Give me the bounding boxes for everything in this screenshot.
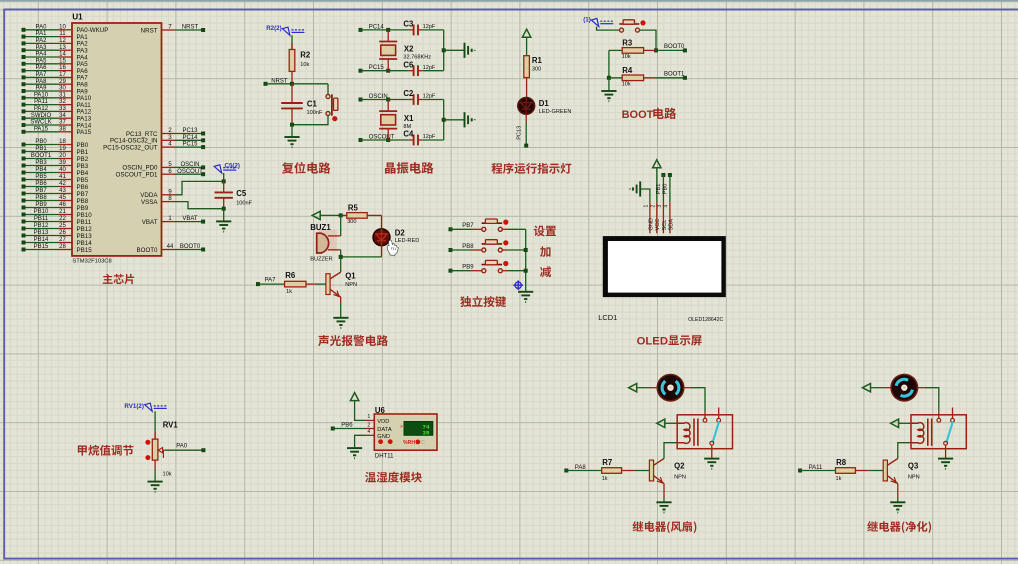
node PA0 <box>201 448 205 452</box>
resistor R3 <box>609 49 622 51</box>
svg-text:12pF: 12pF <box>423 94 436 100</box>
wire net SWCLK to U1 pin 37 <box>24 124 59 126</box>
resistor R8 <box>836 468 856 474</box>
wire right bus <box>443 30 445 71</box>
svg-text:PA0: PA0 <box>36 24 48 30</box>
svg-text:R3: R3 <box>622 39 633 48</box>
svg-text:PB9: PB9 <box>35 202 47 208</box>
svg-text:PB2: PB2 <box>77 156 89 163</box>
diode D1 LED-GREEN <box>518 98 535 115</box>
svg-text:100nF: 100nF <box>236 200 252 206</box>
svg-text:OSCOUT: OSCOUT <box>177 169 203 175</box>
svg-text:45: 45 <box>59 195 66 201</box>
svg-text:1: 1 <box>368 414 371 420</box>
node R5 left <box>339 213 343 217</box>
wire D2 to bottom rail <box>381 246 383 257</box>
svg-text:PB0: PB0 <box>663 184 669 195</box>
resistor R6 <box>285 281 306 287</box>
svg-text:PB7: PB7 <box>462 223 474 229</box>
wire NRST horizontal <box>266 83 293 85</box>
svg-text:PA1: PA1 <box>36 31 48 37</box>
svg-text:NPN: NPN <box>345 282 357 288</box>
wire buzzer bottom to rail node <box>340 250 342 257</box>
potentiometer RV1 <box>152 439 158 460</box>
caption run indicator <box>491 163 571 174</box>
svg-text:SCL: SCL <box>662 220 668 231</box>
wire R4 to ground <box>608 78 610 91</box>
svg-text:NPN: NPN <box>674 474 686 480</box>
wire SDA <box>669 175 671 202</box>
svg-text:PB1: PB1 <box>77 149 89 156</box>
svg-text:PB10: PB10 <box>77 212 93 219</box>
svg-text:PA3: PA3 <box>36 45 48 51</box>
wire button PB9 to bus <box>502 270 507 272</box>
node PC13 end <box>524 144 528 148</box>
wire net PA15 to U1 pin 38 <box>24 131 59 133</box>
svg-text:PC15-OSC32_OUT: PC15-OSC32_OUT <box>103 144 158 151</box>
node PC14 <box>359 28 363 32</box>
relay body <box>677 415 732 449</box>
svg-text:32: 32 <box>59 99 66 105</box>
relay common contact <box>937 418 941 422</box>
svg-text:Q1: Q1 <box>345 271 356 280</box>
wire OSCIN to cap <box>361 99 389 101</box>
svg-text:37: 37 <box>59 120 66 126</box>
svg-text:17: 17 <box>59 72 66 78</box>
caption plus <box>540 246 550 257</box>
svg-text:BUZ1: BUZ1 <box>310 223 331 232</box>
svg-text:PB0: PB0 <box>77 142 89 149</box>
svg-text:PA5: PA5 <box>36 58 48 64</box>
wire Q2 emitter to ground <box>663 484 665 498</box>
svg-text:25: 25 <box>59 223 66 229</box>
wire net PA1 to U1 pin 11 <box>24 36 59 38</box>
wire net PB13 to U1 pin 26 <box>24 235 59 237</box>
power arrow alarm <box>312 211 320 219</box>
svg-text:C5(2): C5(2) <box>225 163 240 170</box>
svg-text:LED-GREEN: LED-GREEN <box>539 109 572 115</box>
svg-text:32.768KHz: 32.768KHz <box>403 55 431 61</box>
wire net PA11 to U1 pin 32 <box>24 104 59 106</box>
svg-text:C5: C5 <box>236 189 247 198</box>
U6 LCD readout <box>404 422 433 436</box>
caption relay <box>633 521 697 533</box>
wire R1 to D1 <box>526 78 528 98</box>
svg-text:PA12: PA12 <box>34 106 49 112</box>
svg-text:11: 11 <box>59 31 66 37</box>
svg-text:X1: X1 <box>404 114 414 123</box>
node PA11 <box>798 469 802 473</box>
svg-text:PA2: PA2 <box>36 38 48 44</box>
ground Q2 emitter <box>656 502 671 512</box>
node C1 bottom <box>290 123 294 127</box>
chip U1 STM32F103C8 <box>72 23 162 256</box>
svg-text:10k: 10k <box>163 472 172 478</box>
ground RV1 <box>148 482 163 492</box>
relay core <box>693 419 695 446</box>
motor power arrow <box>629 384 637 392</box>
wire net OSCOUT from U1 pin 6 <box>162 173 176 175</box>
svg-text:10k: 10k <box>300 62 309 68</box>
svg-text:PB9: PB9 <box>462 265 474 271</box>
relay NO stub <box>952 408 954 419</box>
svg-text:35: 35 <box>423 429 430 436</box>
svg-text:GND: GND <box>377 434 390 440</box>
wire net PB12 to U1 pin 25 <box>24 228 59 230</box>
wire relay bottom contact to ground <box>711 445 713 459</box>
push button PB7 <box>482 227 503 231</box>
relay bottom contact <box>944 441 948 445</box>
wire net VBAT from U1 pin 1 <box>162 221 176 223</box>
svg-text:PB6: PB6 <box>77 184 89 191</box>
wire PA8 to R7 <box>566 470 601 472</box>
svg-text:4: 4 <box>664 205 670 208</box>
svg-text:27: 27 <box>59 237 66 243</box>
caption set <box>534 226 556 237</box>
power arrow DHT11 <box>350 393 358 401</box>
wire net PB8 to U1 pin 45 <box>24 200 59 202</box>
svg-text:R2(2): R2(2) <box>266 25 281 32</box>
relay coil power arrow <box>891 419 899 427</box>
svg-text:300: 300 <box>532 67 541 73</box>
wire PB9 to button <box>451 270 472 272</box>
wire relay bottom contact to ground <box>945 445 947 459</box>
svg-text:29: 29 <box>59 79 66 85</box>
svg-text:PA11: PA11 <box>34 99 48 105</box>
capacitor C1 <box>291 84 293 103</box>
wire button to R3 <box>640 30 656 50</box>
svg-text:VBAT: VBAT <box>182 216 198 222</box>
svg-text:R1: R1 <box>532 56 543 65</box>
svg-text:41: 41 <box>59 174 66 180</box>
wire button to bottom rail <box>292 116 328 125</box>
U6 indicator dots <box>378 439 383 444</box>
capacitor C6 <box>414 65 418 76</box>
svg-text:PB5: PB5 <box>35 174 47 180</box>
wire right bus <box>443 100 445 141</box>
push button BOOT <box>620 28 640 32</box>
ground relay contact <box>938 459 953 469</box>
crystal X1 <box>387 100 389 112</box>
wire net PB5 to U1 pin 41 <box>24 179 59 181</box>
svg-text:BOOT0: BOOT0 <box>180 244 201 250</box>
node NRST <box>264 82 268 86</box>
wire Q3 collector to relay coil <box>898 443 911 459</box>
node junction VDDA/C5 <box>222 179 226 183</box>
wire C5 to ground <box>223 209 225 222</box>
wire net PB11 to U1 pin 22 <box>24 221 59 223</box>
svg-text:PB4: PB4 <box>35 167 47 173</box>
wire net PB1 to U1 pin 19 <box>24 151 59 153</box>
svg-text:PB8: PB8 <box>462 244 474 250</box>
node junction VSSA/C5 <box>222 207 226 211</box>
svg-text:40: 40 <box>59 167 66 173</box>
wire OSCOUT to cap <box>361 139 389 141</box>
svg-text:15: 15 <box>59 58 66 64</box>
node OSCIN <box>359 98 363 102</box>
svg-text:PB12: PB12 <box>34 223 49 229</box>
svg-text:BOOT: BOOT <box>622 109 654 121</box>
svg-text:U6: U6 <box>375 406 386 415</box>
wire button bus <box>525 229 527 291</box>
svg-text:30: 30 <box>59 86 66 92</box>
capacitor C5 <box>223 181 225 192</box>
ground BOOT circuit <box>601 91 616 101</box>
wire net PA5 to U1 pin 15 <box>24 63 59 65</box>
svg-text:44: 44 <box>167 244 174 250</box>
svg-text:R2: R2 <box>300 50 311 59</box>
wire BOOT0 net <box>656 49 685 51</box>
wire net PC14 from U1 pin 3 <box>162 139 176 141</box>
wire net PB14 to U1 pin 27 <box>24 242 59 244</box>
push button PB9 <box>482 269 503 273</box>
node OSCOUT <box>359 138 363 142</box>
node R3 right <box>654 48 658 52</box>
wire net PA8 to U1 pin 29 <box>24 83 59 85</box>
svg-text:R7: R7 <box>602 458 612 467</box>
buzzer bottom pin <box>328 249 341 251</box>
wire probe to button <box>597 27 620 31</box>
svg-text:12pF: 12pF <box>423 134 436 140</box>
capacitor C3 <box>414 25 418 36</box>
LCD1 pin 1 GND <box>649 202 651 233</box>
ground Q3 emitter <box>890 502 905 512</box>
svg-text:2: 2 <box>368 422 371 428</box>
svg-text:PB14: PB14 <box>77 240 93 247</box>
svg-text:PB1: PB1 <box>35 146 47 152</box>
svg-text:42: 42 <box>59 181 66 187</box>
svg-text:19: 19 <box>59 146 66 152</box>
wire power to R5 node <box>320 214 341 216</box>
relay NO stub <box>718 408 720 419</box>
wire net PA6 to U1 pin 16 <box>24 70 59 72</box>
display LCD1 OLED <box>603 236 726 297</box>
svg-text:PB11: PB11 <box>77 219 92 226</box>
svg-text:PB14: PB14 <box>34 237 49 243</box>
svg-text:PA8: PA8 <box>36 79 48 85</box>
wire PA7 to R6 <box>258 283 285 285</box>
svg-text:RV1: RV1 <box>163 420 179 429</box>
svg-text:28: 28 <box>59 244 66 250</box>
svg-text:BOOT0: BOOT0 <box>664 44 685 50</box>
svg-text:VDD: VDD <box>377 419 389 425</box>
relay bottom contact <box>710 441 714 445</box>
svg-text:16: 16 <box>59 65 66 71</box>
svg-text:C6: C6 <box>403 60 414 69</box>
svg-text:12pF: 12pF <box>423 65 436 71</box>
svg-text:31: 31 <box>59 92 66 98</box>
svg-text:PA15: PA15 <box>77 129 92 136</box>
svg-text:R5: R5 <box>348 204 359 213</box>
svg-text:39: 39 <box>59 160 66 166</box>
svg-text:PB7: PB7 <box>77 191 89 198</box>
relay NO contact <box>951 418 955 422</box>
wire net PA7 to U1 pin 17 <box>24 76 59 78</box>
wire net PB3 to U1 pin 39 <box>24 165 59 167</box>
wire PC14 to cap <box>361 29 389 31</box>
wire net PB15 to U1 pin 28 <box>24 249 59 251</box>
resistor R5 <box>341 214 347 216</box>
wire RV1 to ground <box>154 460 156 470</box>
wire net OSCIN from U1 pin 5 <box>162 166 176 168</box>
resistor R4 <box>609 77 622 79</box>
node PA7 <box>256 282 260 286</box>
node bus mid <box>442 48 446 52</box>
wire power to R1 <box>526 37 528 56</box>
wire button PB7 to bus <box>502 228 507 230</box>
LCD1 pin 4 SDA <box>669 202 671 233</box>
ground alarm <box>333 318 348 328</box>
wire net BOOT0 from U1 pin 44 <box>162 249 176 251</box>
svg-text:R8: R8 <box>836 458 847 467</box>
voltage probe (1) <box>591 18 613 26</box>
svg-text:NPN: NPN <box>908 474 920 480</box>
ground under C5 <box>216 221 231 231</box>
svg-text:RV1(2): RV1(2) <box>124 403 143 410</box>
svg-text:PB8: PB8 <box>77 198 89 205</box>
wire net PB10 to U1 pin 21 <box>24 214 59 216</box>
svg-text:D1: D1 <box>539 99 550 108</box>
caption methane adjust <box>78 445 134 456</box>
capacitor C2 <box>414 94 418 105</box>
svg-text:BUZZER: BUZZER <box>310 256 332 262</box>
svg-text:1k: 1k <box>602 476 608 482</box>
origin marker <box>513 280 523 290</box>
svg-text:NRST: NRST <box>141 27 158 34</box>
node bus mid <box>442 118 446 122</box>
diode D2 LED-RED <box>373 229 390 246</box>
wire VDD <box>355 401 366 421</box>
svg-text:PB11: PB11 <box>34 216 49 222</box>
svg-text:PA15: PA15 <box>34 126 49 132</box>
push button PB8 <box>482 248 503 252</box>
svg-text:C3: C3 <box>403 20 414 29</box>
buzzer BUZ1 <box>317 233 329 253</box>
svg-text:OSCOUT_PD1: OSCOUT_PD1 <box>116 172 159 179</box>
ground relay contact <box>704 459 719 469</box>
LCD1 pin 2 VCC <box>656 202 658 233</box>
wire net PA9 to U1 pin 30 <box>24 90 59 92</box>
wire net PC13 from U1 pin 2 <box>162 133 176 135</box>
wire net PB7 to U1 pin 43 <box>24 193 59 195</box>
relay body <box>911 415 966 449</box>
svg-text:GND: GND <box>648 218 654 230</box>
wire to ground <box>291 125 293 137</box>
svg-text:PC14: PC14 <box>182 135 198 141</box>
svg-text:DATA: DATA <box>377 427 392 433</box>
power arrow OLED VCC <box>653 160 661 168</box>
svg-text:D2: D2 <box>395 228 406 237</box>
wire net PA12 to U1 pin 33 <box>24 110 59 112</box>
ground crystal <box>465 112 475 127</box>
svg-text:2: 2 <box>650 205 656 208</box>
node PC15 <box>359 69 363 73</box>
wire net PC15 from U1 pin 4 <box>162 146 176 148</box>
wire probe to C5 <box>223 173 225 181</box>
svg-text:100nF: 100nF <box>307 110 323 116</box>
svg-text:18: 18 <box>59 139 66 145</box>
svg-text:BOOT1: BOOT1 <box>664 72 685 78</box>
wire bus to ground <box>444 49 465 51</box>
ground buttons <box>518 292 533 302</box>
node bus PB9 <box>524 269 528 273</box>
svg-text:PB8: PB8 <box>35 195 47 201</box>
svg-text:PB13: PB13 <box>77 233 93 240</box>
wire net PB9 to U1 pin 46 <box>24 207 59 209</box>
U1 pin 8 VSSA wire <box>162 201 176 203</box>
svg-text:10: 10 <box>59 24 66 30</box>
push button reset <box>326 95 330 116</box>
wire net PA3 to U1 pin 13 <box>24 49 59 51</box>
svg-text:PB10: PB10 <box>34 209 49 215</box>
wire R5 node to buzzer top <box>340 215 342 236</box>
wire GND DHT11 <box>366 434 375 436</box>
svg-text:Q2: Q2 <box>674 462 685 471</box>
svg-text:1: 1 <box>644 205 650 208</box>
node PA8 <box>564 469 568 473</box>
svg-text:BOOT1: BOOT1 <box>31 153 52 159</box>
wire PA11 to R8 <box>800 470 835 472</box>
wire net PA4 to U1 pin 14 <box>24 56 59 58</box>
svg-text:PA0: PA0 <box>176 444 188 450</box>
caption main chip <box>103 274 134 284</box>
svg-text:NRST: NRST <box>182 25 199 31</box>
transistor Q3 NPN <box>883 460 887 481</box>
wire D1 to PC13 node <box>525 114 527 122</box>
wire bus to ground <box>444 119 465 121</box>
svg-text:C: C <box>421 440 425 446</box>
node PB8 <box>449 248 453 252</box>
svg-text:PC13: PC13 <box>182 128 198 134</box>
svg-text:R4: R4 <box>622 66 633 75</box>
svg-text:PA4: PA4 <box>36 52 48 58</box>
svg-text:STM32F103C8: STM32F103C8 <box>72 259 111 265</box>
transistor Q2 NPN <box>649 460 653 481</box>
wire C3 to bus <box>418 29 423 31</box>
svg-text:12pF: 12pF <box>423 24 436 30</box>
relay coil power arrow <box>657 419 665 427</box>
node bus PB8 <box>524 248 528 252</box>
svg-text:1k: 1k <box>836 476 842 482</box>
U1 pin 9 VDDA wire <box>162 194 176 196</box>
wire C6 to bus <box>418 70 423 72</box>
svg-text:PB3: PB3 <box>35 160 47 166</box>
LCD1 pin 3 SCL <box>662 202 664 233</box>
node PB7 <box>449 227 453 231</box>
motor fan <box>887 370 922 405</box>
svg-text:38: 38 <box>59 126 66 132</box>
wire net PA2 to U1 pin 12 <box>24 42 59 44</box>
voltage probe C5(2) <box>214 165 236 173</box>
wire rail to Q1 collector <box>340 257 342 272</box>
node PB1 SCL <box>661 173 665 177</box>
wire net PA10 to U1 pin 31 <box>24 97 59 99</box>
svg-text:10k: 10k <box>622 54 631 60</box>
sensor U6 DHT11 body <box>374 414 437 450</box>
buzzer highlight <box>319 230 337 252</box>
capacitor C4 <box>414 135 418 146</box>
svg-text:PB6: PB6 <box>35 181 47 187</box>
relay common contact <box>703 418 707 422</box>
wire RV1 wiper to PA0 <box>165 449 204 451</box>
node R4 left junction <box>607 76 611 80</box>
wire R2 to NRST node <box>291 71 293 83</box>
motor fan <box>657 375 683 401</box>
svg-text:DHT11: DHT11 <box>375 453 394 459</box>
motor power arrow <box>863 384 871 392</box>
svg-text:8M: 8M <box>403 124 411 130</box>
svg-text:C2: C2 <box>403 89 414 98</box>
